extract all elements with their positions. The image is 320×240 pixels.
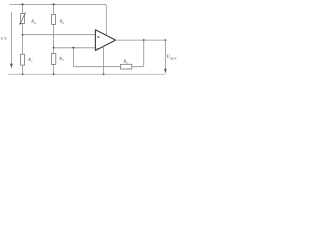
junction dot R_2 rail bbox=[53, 73, 55, 75]
op-amp U1 triangle bbox=[95, 30, 115, 51]
resistor R_1 body bbox=[21, 54, 25, 65]
junction dot rail R_0 tap bbox=[53, 3, 55, 5]
terminal dot output bbox=[165, 39, 167, 41]
wire node A to op-amp + input bbox=[23, 34, 96, 36]
wire R_k up to output bbox=[132, 40, 144, 67]
wire R_1 to ground rail bbox=[22, 65, 24, 74]
node B junction dot bbox=[53, 47, 55, 49]
resistor R_k body bbox=[121, 64, 132, 69]
wire R_theta to node A bbox=[22, 23, 24, 34]
node A junction dot bbox=[22, 34, 24, 36]
resistor R_1 lead from node A bbox=[22, 35, 24, 55]
thermistor R_theta lead top bbox=[22, 4, 24, 13]
resistor R_0 body bbox=[52, 14, 56, 24]
op-amp + sign bbox=[97, 36, 100, 39]
junction dot V- rail bbox=[103, 73, 105, 75]
wire feedback down and right bbox=[73, 48, 120, 67]
svg-text:UADC: UADC bbox=[167, 55, 178, 61]
junction dot feedback tap on node B wire bbox=[72, 47, 74, 49]
wire op-amp V- supply to ground bbox=[103, 46, 105, 74]
wire bottom ground rail bbox=[8, 73, 165, 75]
junction dot R_1 rail bbox=[22, 73, 24, 75]
junction dot feedback output bbox=[143, 39, 145, 41]
op-amp - sign bbox=[97, 47, 100, 49]
resistor R_0 lead top bbox=[53, 4, 55, 14]
junction dot rail thermistor tap bbox=[22, 3, 24, 5]
voltage arrow 5V bbox=[10, 12, 12, 65]
wire node B to op-amp - input bbox=[54, 47, 96, 49]
resistor R_2 lead from node B bbox=[53, 48, 55, 54]
voltage arrow U_ADC bbox=[164, 40, 166, 70]
thermistor diagonal stroke bbox=[20, 12, 25, 23]
thermistor R_theta body bbox=[21, 14, 25, 24]
resistor R_2 body bbox=[51, 54, 55, 65]
wire R_0 to node B bbox=[53, 24, 55, 47]
wire op-amp output bbox=[116, 39, 166, 41]
wire R_2 to ground rail bbox=[53, 64, 55, 74]
wire top 5V rail bbox=[9, 4, 106, 35]
